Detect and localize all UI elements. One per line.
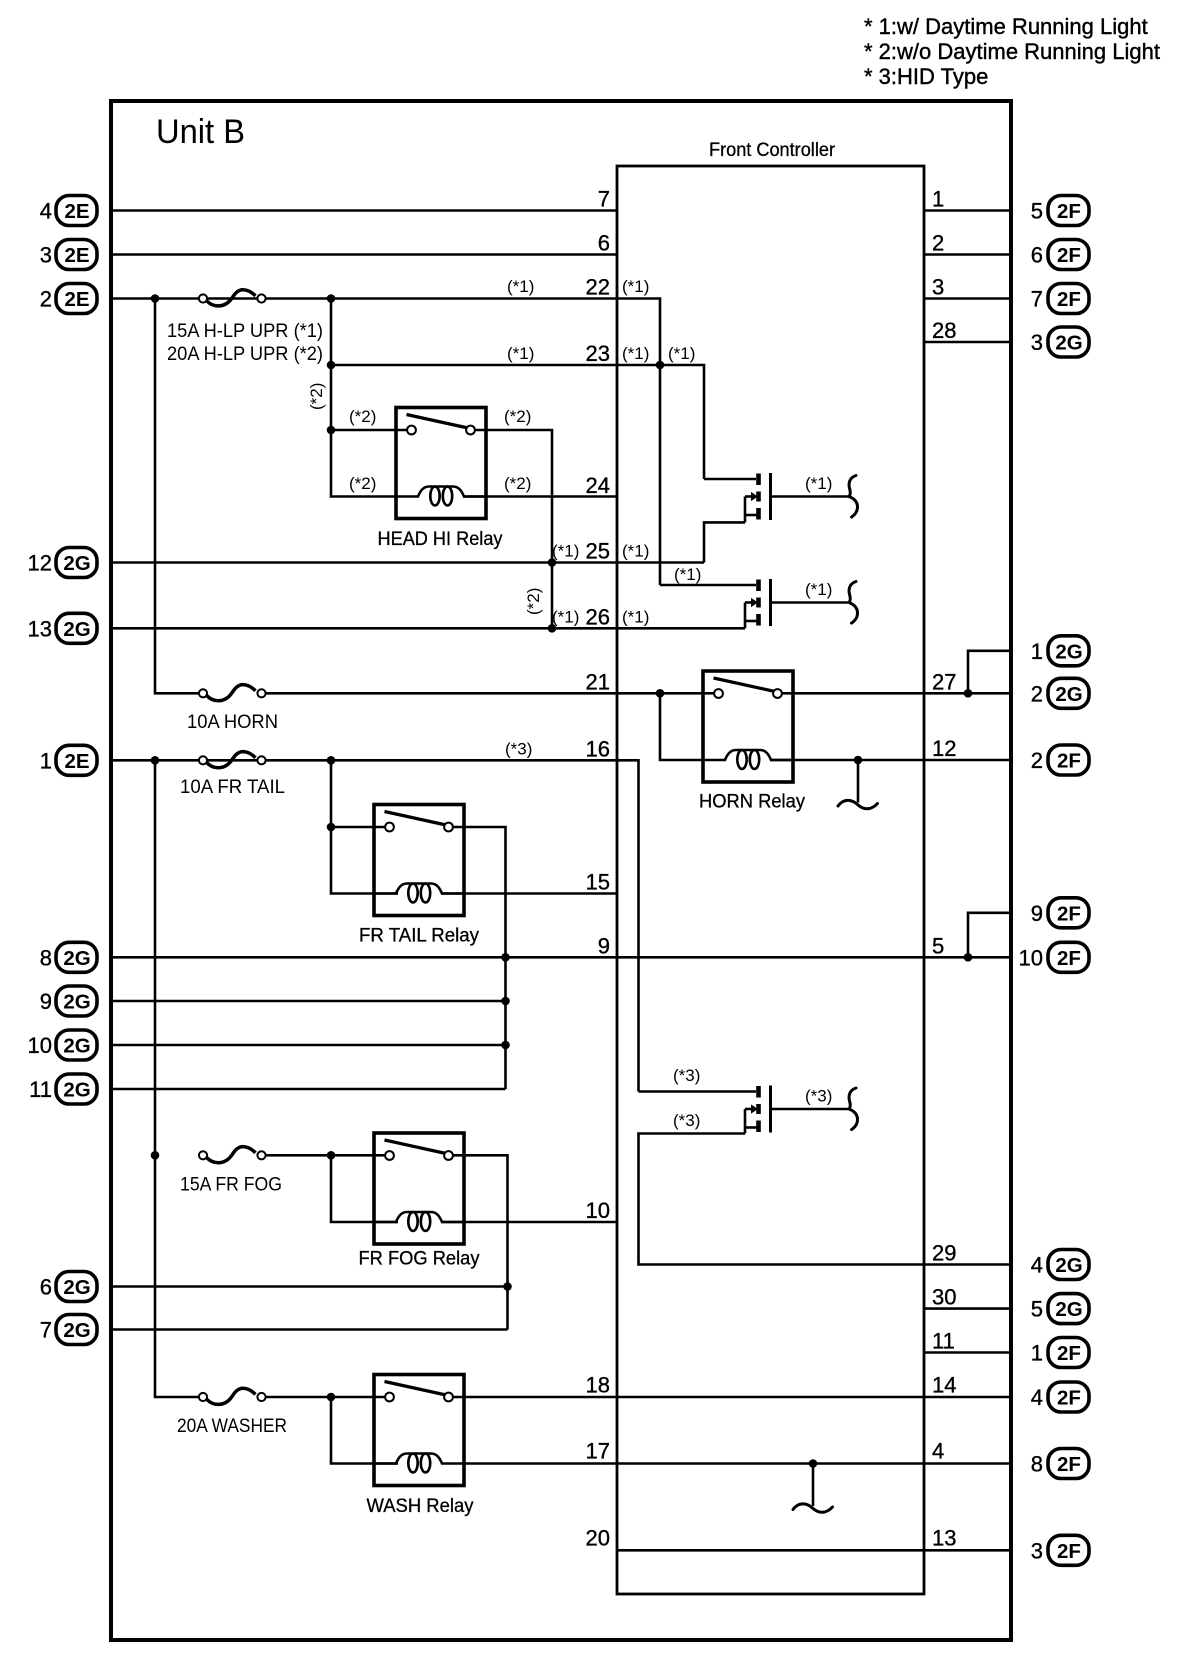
svg-text:15A FR FOG: 15A FR FOG (180, 1174, 282, 1196)
connector 4 2F (right) (1031, 1382, 1089, 1412)
svg-text:14: 14 (932, 1373, 956, 1398)
Front Controller box U1 (617, 166, 924, 1594)
svg-text:* 3:HID Type: * 3:HID Type (864, 64, 988, 89)
wire pin22 inside controller (617, 299, 660, 586)
ground symbol (horn relay) (838, 760, 878, 809)
svg-text:2G: 2G (63, 618, 90, 641)
svg-text:2G: 2G (1055, 683, 1082, 706)
svg-text:* 2:w/o Daytime Running Light: * 2:w/o Daytime Running Light (864, 39, 1160, 64)
junction on wire22 at fuse branch (327, 294, 336, 303)
wire pin3 row (924, 297, 1011, 300)
fuse F2 10A HORN (199, 685, 266, 701)
relay K4 FR FOG (374, 1133, 464, 1244)
svg-text:2F: 2F (1057, 902, 1081, 925)
connector 1 2G (right) (1031, 636, 1089, 666)
connector 9 2G (left) (40, 986, 97, 1016)
svg-text:18: 18 (586, 1373, 610, 1398)
svg-text:(*2): (*2) (504, 407, 531, 426)
connector 13 2G (left) (28, 613, 97, 643)
junction on wire22 at vertical A (151, 294, 160, 303)
svg-text:FR TAIL Relay: FR TAIL Relay (359, 925, 479, 947)
svg-text:(*1): (*1) (507, 277, 534, 296)
wire pin12 from horn coil to 2F-2 (770, 759, 1011, 762)
connector 10 2G (left) (28, 1030, 97, 1060)
Q2 body/source vertical to wire26 (744, 603, 747, 629)
connector 6 2G (left) (40, 1272, 97, 1302)
svg-text:10: 10 (1019, 945, 1043, 970)
wire head-hi switch input (331, 429, 407, 432)
svg-text:10A HORN: 10A HORN (187, 711, 278, 733)
junction 9-2G (501, 997, 510, 1006)
svg-text:8: 8 (40, 945, 52, 970)
svg-text:(*1): (*1) (552, 542, 579, 561)
transistor Q2 (*1 head lamp driver) (745, 579, 858, 626)
svg-text:23: 23 (586, 341, 610, 366)
transistor Q1 (*1 head lamp driver) (745, 473, 858, 520)
wire 10-2G row (111, 1044, 506, 1047)
wire pin11 row (924, 1351, 1011, 1354)
Q1 source wire to pin25 (704, 522, 745, 562)
wire horn switch output to pin27 and 2G-2 (782, 692, 1012, 695)
vertical C fuse branch down to HEAD HI relay (331, 299, 398, 497)
wire branch to 1-2G (968, 651, 1011, 694)
svg-text:FR FOG Relay: FR FOG Relay (359, 1248, 480, 1270)
svg-text:HORN Relay: HORN Relay (699, 791, 805, 813)
junction ground branch on pin12 wire (854, 756, 863, 765)
svg-text:4: 4 (1031, 1385, 1043, 1410)
svg-text:12: 12 (28, 551, 52, 576)
junction wire26 / switch output vertical (548, 624, 557, 633)
svg-text:5: 5 (1031, 199, 1043, 224)
svg-text:2G: 2G (63, 1035, 90, 1058)
connector 5 2G (right) (1031, 1294, 1089, 1324)
svg-text:2F: 2F (1057, 1453, 1081, 1476)
connector 8 2G (left) (40, 942, 97, 972)
svg-text:(*1): (*1) (622, 607, 649, 626)
svg-text:17: 17 (586, 1439, 610, 1464)
wire fr-fog fuse row (261, 1154, 385, 1157)
svg-text:4: 4 (40, 199, 52, 224)
relay K2 HORN (703, 671, 793, 782)
svg-text:2G: 2G (1055, 1254, 1082, 1277)
svg-text:2F: 2F (1057, 288, 1081, 311)
wire pin2 row (924, 253, 1011, 256)
svg-text:Front Controller: Front Controller (709, 139, 835, 161)
svg-text:(*2): (*2) (349, 407, 376, 426)
svg-text:(*1): (*1) (805, 474, 832, 493)
connector 8 2F (right) (1031, 1449, 1089, 1479)
svg-text:6: 6 (40, 1275, 52, 1300)
svg-text:2G: 2G (63, 947, 90, 970)
wire pin26 row (13-2G) (111, 627, 745, 630)
svg-text:2G: 2G (1055, 640, 1082, 663)
wire fog coil input (331, 1155, 398, 1222)
connector 3 2G (right) (1031, 327, 1089, 357)
junction wash switch node (327, 1393, 336, 1402)
svg-text:(*3): (*3) (805, 1087, 832, 1106)
svg-text:2: 2 (932, 231, 944, 256)
svg-text:(*2): (*2) (307, 383, 326, 410)
svg-text:2F: 2F (1057, 947, 1081, 970)
connector 10 2F (right) (1019, 942, 1089, 972)
svg-text:4: 4 (932, 1439, 944, 1464)
svg-text:22: 22 (586, 275, 610, 300)
wire pin21 horn feed (261, 692, 714, 695)
svg-text:10: 10 (586, 1198, 610, 1223)
wire pin15 from fr-tail coil (441, 892, 617, 895)
wire pin23 (331, 364, 617, 367)
Unit B enclosure box (111, 101, 1011, 1640)
vertical A from 2E-2 to horn fuse wire (155, 299, 203, 694)
svg-text:2G: 2G (63, 1079, 90, 1102)
relay K3 FR TAIL (374, 805, 464, 916)
svg-text:2F: 2F (1057, 1540, 1081, 1563)
Q1 drain wire (704, 478, 756, 481)
wire pin9/pin5 row (8-2G through controller to 10-2F) (111, 956, 1011, 959)
wire pin7 row (111, 209, 617, 212)
wire pin18 to pin14 through controller to 4-2F (453, 1396, 1011, 1399)
svg-text:24: 24 (586, 473, 610, 498)
svg-text:2: 2 (40, 287, 52, 312)
junction vertical B / fog fuse (151, 1151, 160, 1160)
svg-text:* 1:w/ Daytime Running Light: * 1:w/ Daytime Running Light (864, 14, 1148, 39)
wire fog switch output down to 7-2G (453, 1155, 508, 1329)
svg-text:8: 8 (1031, 1452, 1043, 1477)
svg-text:HEAD HI Relay: HEAD HI Relay (378, 528, 503, 550)
ground symbol (wash relay) (793, 1464, 833, 1513)
wire wash coil input (331, 1397, 398, 1464)
connector 9 2F (right) (1031, 898, 1089, 928)
wire pin17 from wash coil through controller to 8-2F (464, 1462, 1011, 1465)
svg-text:30: 30 (932, 1285, 956, 1310)
svg-text:1: 1 (1031, 639, 1043, 664)
fuse F1 value label (167, 320, 323, 365)
svg-text:2G: 2G (1055, 332, 1082, 355)
connector 6 2F (right) (1031, 240, 1089, 270)
svg-text:5: 5 (932, 933, 944, 958)
wire pin24 from head-hi coil (463, 495, 617, 498)
svg-text:29: 29 (932, 1241, 956, 1266)
svg-text:2G: 2G (63, 1319, 90, 1342)
svg-text:2F: 2F (1057, 244, 1081, 267)
wire branch to 9-2F (968, 913, 1011, 958)
svg-text:9: 9 (598, 933, 610, 958)
wire 9-2G row (111, 1000, 506, 1003)
svg-text:10A FR TAIL: 10A FR TAIL (180, 776, 285, 798)
svg-text:11: 11 (29, 1077, 52, 1102)
svg-text:2E: 2E (64, 244, 89, 267)
svg-text:20: 20 (586, 1525, 610, 1550)
svg-text:2G: 2G (1055, 1298, 1082, 1321)
junction fr-tail switch node (327, 823, 336, 832)
svg-text:WASH Relay: WASH Relay (367, 1495, 474, 1517)
wire pin16 row (1-2E fr tail feed) (111, 759, 617, 762)
junction vertical B start (151, 756, 160, 765)
svg-text:2: 2 (1031, 748, 1043, 773)
wire pin10 from fog coil (441, 1221, 617, 1224)
connector 4 2E (left) (40, 196, 97, 226)
svg-text:11: 11 (932, 1329, 955, 1354)
svg-text:2F: 2F (1057, 200, 1081, 223)
wire head-hi switch output down to wire26 (475, 430, 552, 628)
connector 12 2G (left) (28, 548, 97, 578)
junction fog switch node (327, 1151, 336, 1160)
wire pin1 row (924, 209, 1011, 212)
svg-text:(*2): (*2) (524, 588, 543, 615)
relay K5 WASH (374, 1375, 464, 1486)
svg-text:(*3): (*3) (505, 739, 532, 758)
fuse F4 15A FR FOG (199, 1147, 266, 1163)
junction horn coil branch (656, 689, 665, 698)
wire washer fuse row / pin18 / pin14 (261, 1396, 385, 1399)
Q2 drain wire (660, 584, 756, 587)
wire pin25 row (12-2G) (111, 561, 704, 564)
junction wire9 / fr-tail output (501, 953, 510, 962)
connector 5 2F (right) (1031, 196, 1089, 226)
connector 2 2F (right) (1031, 745, 1089, 775)
junction 10-2G (501, 1041, 510, 1050)
svg-text:1: 1 (932, 187, 944, 212)
svg-text:2E: 2E (64, 288, 89, 311)
svg-text:9: 9 (1031, 901, 1043, 926)
svg-text:(*1): (*1) (622, 277, 649, 296)
svg-text:2G: 2G (63, 991, 90, 1014)
wire fr-tail switch input (331, 760, 398, 893)
fuse F3 10A FR TAIL (199, 752, 266, 768)
wire pin28 row (924, 341, 1011, 344)
svg-text:1: 1 (1031, 1341, 1043, 1366)
wire fr-tail switch output down to 11-2G (453, 827, 506, 1089)
connector 2 2E (left) (40, 284, 97, 314)
svg-text:7: 7 (40, 1318, 52, 1343)
wire 6-2G row (111, 1285, 508, 1288)
svg-text:(*1): (*1) (668, 344, 695, 363)
transistor Q3 (*3 HID driver) (745, 1086, 858, 1133)
svg-text:(*1): (*1) (674, 565, 701, 584)
svg-text:5: 5 (1031, 1297, 1043, 1322)
connector 7 2F (right) (1031, 284, 1089, 314)
svg-text:7: 7 (1031, 287, 1043, 312)
wire horn coil input (660, 693, 703, 760)
wire pin30 row (924, 1307, 1011, 1310)
Q1 body/source vertical (744, 497, 747, 523)
svg-text:21: 21 (586, 669, 610, 694)
svg-text:27: 27 (932, 669, 956, 694)
junction wire23 / wire22 vertical (656, 361, 665, 370)
svg-text:(*1): (*1) (805, 580, 832, 599)
svg-text:2F: 2F (1057, 1387, 1081, 1410)
junction pin5 branch to 9-2F (964, 953, 973, 962)
svg-text:10: 10 (28, 1033, 52, 1058)
svg-text:2F: 2F (1057, 750, 1081, 773)
wire pin6 row (111, 253, 617, 256)
wire pin22 row (2E-2 feed) (111, 297, 617, 300)
Q3 body/source vertical (744, 1109, 747, 1134)
svg-text:2G: 2G (63, 552, 90, 575)
svg-text:(*2): (*2) (349, 474, 376, 493)
svg-text:2F: 2F (1057, 1342, 1081, 1365)
svg-text:25: 25 (586, 539, 610, 564)
svg-text:4: 4 (1031, 1253, 1043, 1278)
wire pin20 to pin13 through controller to 3-2F (617, 1549, 1011, 1552)
svg-text:(*1): (*1) (622, 344, 649, 363)
Q3 source wire down to pin29 (639, 1134, 1012, 1265)
svg-text:15: 15 (586, 870, 610, 895)
relay K1 HEAD HI (396, 408, 486, 519)
junction pin27 branch (964, 689, 973, 698)
svg-text:9: 9 (40, 989, 52, 1014)
svg-text:20A H-LP UPR (*2): 20A H-LP UPR (*2) (167, 343, 323, 365)
svg-text:2E: 2E (64, 200, 89, 223)
junction ground branch on pin17 wire (809, 1459, 818, 1468)
svg-text:(*3): (*3) (673, 1066, 700, 1085)
connector 1 2E (left) (40, 745, 97, 775)
connector 4 2G (right) (1031, 1250, 1089, 1280)
svg-text:(*1): (*1) (552, 607, 579, 626)
junction wire25 / switch output vertical (548, 558, 557, 567)
connector 2 2G (right) (1031, 678, 1089, 708)
vertical B fuse column (1-2E down to washer) (155, 760, 203, 1397)
wire fr-tail switch input horizontal (331, 826, 385, 829)
svg-text:(*2): (*2) (504, 474, 531, 493)
svg-text:(*1): (*1) (622, 542, 649, 561)
svg-text:1: 1 (40, 748, 52, 773)
svg-text:2: 2 (1031, 681, 1043, 706)
Q3 drain wire (639, 1090, 757, 1093)
wire 11-2G row (111, 1088, 506, 1091)
connector 11 2G (left) (29, 1074, 97, 1104)
fuse F1 15A/20A H-LP UPR (199, 290, 266, 306)
svg-text:7: 7 (598, 187, 610, 212)
wire pin23 inside controller (617, 365, 704, 479)
junction fr-tail relay branch (327, 756, 336, 765)
svg-text:(*3): (*3) (673, 1111, 700, 1130)
svg-text:13: 13 (932, 1525, 956, 1550)
wire pin16 inside controller down to Q3 (617, 760, 639, 1091)
svg-text:15A H-LP UPR (*1): 15A H-LP UPR (*1) (167, 320, 323, 342)
svg-text:28: 28 (932, 318, 956, 343)
fuse F5 20A WASHER (199, 1388, 266, 1404)
svg-text:Unit B: Unit B (156, 113, 245, 151)
svg-text:26: 26 (586, 604, 610, 629)
junction head-hi switch input (327, 426, 336, 435)
svg-text:20A WASHER: 20A WASHER (177, 1415, 287, 1437)
svg-text:2E: 2E (64, 750, 89, 773)
connector 3 2F (right) (1031, 1535, 1089, 1565)
svg-text:16: 16 (586, 736, 610, 761)
svg-text:3: 3 (1031, 1538, 1043, 1563)
svg-text:3: 3 (932, 275, 944, 300)
connector 3 2E (left) (40, 240, 97, 270)
junction wire23 start (327, 361, 336, 370)
svg-text:13: 13 (28, 616, 52, 641)
svg-text:3: 3 (40, 243, 52, 268)
svg-text:6: 6 (598, 231, 610, 256)
svg-text:12: 12 (932, 736, 956, 761)
svg-text:3: 3 (1031, 330, 1043, 355)
svg-text:6: 6 (1031, 243, 1043, 268)
connector 7 2G (left) (40, 1315, 97, 1345)
connector 1 2F (right) (1031, 1338, 1089, 1368)
wire 7-2G row (111, 1328, 508, 1331)
junction 6-2G (503, 1282, 512, 1291)
svg-text:2G: 2G (63, 1276, 90, 1299)
svg-text:(*1): (*1) (507, 344, 534, 363)
legend note *1/*2/*3 (864, 14, 1160, 89)
